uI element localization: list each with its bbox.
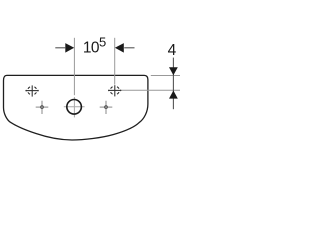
dimension 105 left arrow xyxy=(65,43,74,53)
right hole mark (cross with dashed circle) xyxy=(108,85,121,96)
extension line lower right (horizontal, hole centerline) xyxy=(121,89,180,91)
extension line top right (horizontal, from shape top edge) xyxy=(151,75,180,77)
dimension 105 left tail xyxy=(55,47,65,49)
flush circle horizontal centerline xyxy=(64,106,85,108)
left small hole mark (cross with tiny circle) xyxy=(36,101,49,114)
dimension 4 up arrow xyxy=(169,91,178,99)
dimension 4 down arrow xyxy=(169,67,178,75)
right small hole mark (cross with tiny circle) xyxy=(100,101,113,114)
extension line left (vertical, through flush circle) xyxy=(73,38,75,95)
svg-text:4: 4 xyxy=(168,42,177,59)
cistern outline xyxy=(4,75,148,140)
dimension 105 right arrow xyxy=(115,43,124,53)
flush circle vertical centerline xyxy=(73,97,75,117)
dimension 4 vertical line xyxy=(172,58,174,110)
extension line right (vertical, to right hole) xyxy=(114,38,116,85)
left hole mark (cross with dashed circle) xyxy=(26,85,39,96)
flush circle xyxy=(67,100,82,115)
dimension 105 right tail xyxy=(124,47,134,49)
